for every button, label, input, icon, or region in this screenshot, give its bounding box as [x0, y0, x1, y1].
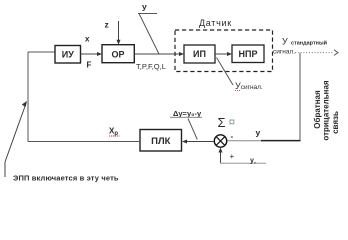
wire: EPP leader diagonal arrow: [5, 104, 26, 163]
wire: y0 vertical arrow into circle bottom: [220, 150, 222, 164]
wire: IU to OR: [81, 53, 100, 55]
wire: feedback left vertical x=28: [27, 52, 29, 142]
arrowhead EPP: [22, 101, 27, 107]
wire: leader from delta label: [188, 119, 197, 140]
sigma placeholder square: [230, 120, 234, 124]
svg-text:z: z: [105, 19, 109, 29]
dashed box sensor: [175, 30, 273, 72]
wire: feedback horizontal right y=141: [227, 140, 262, 142]
svg-text:ПЛК: ПЛК: [151, 136, 170, 147]
svg-text:сигнал.: сигнал.: [273, 49, 295, 56]
arrowhead into NPR: [227, 52, 232, 56]
svg-text:стандартный: стандартный: [291, 40, 327, 47]
svg-text:ИП: ИП: [193, 49, 206, 59]
svg-text:ОР: ОР: [111, 49, 124, 59]
block PLK: [140, 130, 182, 152]
summation X stroke 2: [216, 137, 225, 146]
arrowhead into IP: [179, 52, 184, 56]
block IP: [184, 45, 215, 63]
svg-text:связь: связь: [331, 111, 340, 134]
svg-text:Датчик: Датчик: [199, 18, 232, 28]
arrowhead into OR: [97, 52, 102, 56]
svg-text:T,P,F,Q,L: T,P,F,Q,L: [136, 62, 166, 71]
arrowhead into PLK: [182, 140, 187, 144]
svg-text:ИУ: ИУ: [62, 50, 74, 60]
arrowhead y0: [219, 148, 223, 153]
svg-text:НПР: НПР: [239, 49, 258, 59]
wire: z arrow into OR top: [118, 21, 120, 42]
svg-text:Σ: Σ: [218, 115, 226, 130]
svg-text:F: F: [87, 61, 92, 70]
svg-text:ЭПП включается в эту четь: ЭПП включается в эту четь: [13, 174, 119, 183]
svg-text:x: x: [85, 35, 90, 44]
wire: PLK output to left y=141.5: [28, 141, 140, 143]
arrowhead z: [117, 40, 121, 45]
block IU: [55, 46, 81, 64]
wire: feedback vertical right x=300: [299, 53, 301, 141]
wire: leader to U signal: [217, 58, 234, 86]
svg-text:у₀: у₀: [250, 157, 256, 165]
svg-text:Усигнал.: Усигнал.: [235, 81, 263, 91]
arrowhead dotted: [334, 50, 338, 56]
wire: dotted standard-signal line: [295, 52, 334, 54]
svg-text:У: У: [282, 37, 288, 47]
svg-text:у: у: [256, 128, 261, 138]
wire: input into IU y=52: [28, 51, 55, 53]
wire: circle to PLK: [185, 141, 214, 143]
wire: y0 horizontal: [221, 162, 267, 164]
wire: y diagonal: [139, 14, 159, 55]
wire: EPP leader vertical: [4, 162, 6, 177]
block NPR: [232, 45, 264, 63]
wire: y tick horizontal: [138, 13, 157, 15]
svg-text:у: у: [142, 2, 147, 12]
block OR: [102, 45, 134, 63]
svg-text:+: +: [230, 152, 235, 161]
svg-text:-: -: [231, 132, 234, 141]
red spellcheck squiggle: [235, 90, 240, 92]
svg-text:Хр: Хр: [109, 127, 118, 138]
svg-text:Δу=у₀-у: Δу=у₀-у: [173, 109, 202, 118]
wire: IP to NPR: [215, 53, 230, 55]
svg-text:отрицательная: отрицательная: [322, 80, 331, 141]
summation X stroke 1: [216, 137, 225, 146]
summation junction circle: [214, 135, 226, 147]
wire: OR to IP: [134, 53, 181, 55]
